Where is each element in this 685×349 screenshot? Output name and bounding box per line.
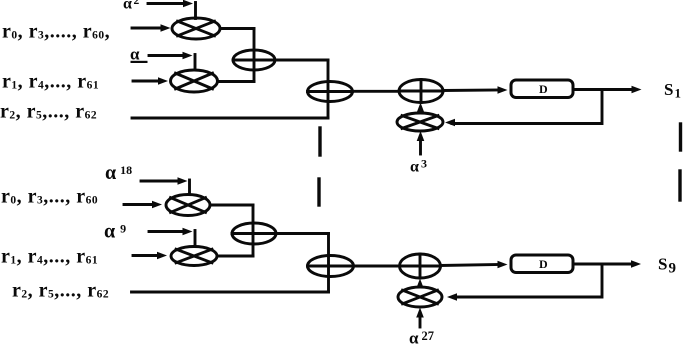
multiplier M2 (171, 70, 218, 92)
wire alpha to multiplier M2 (149, 52, 195, 70)
wire D1 output to S1 (573, 86, 642, 94)
label alpha^2 (123, 0, 139, 13)
wire r1 row into M5 (133, 252, 167, 260)
wire vertical through adder A2 (327, 60, 330, 118)
output label S9 (658, 255, 676, 277)
input r1,r4,...,r61 label (top) (2, 71, 99, 93)
multiplier M3 (feedback) (397, 113, 443, 131)
dashed separator (right) dash 1 (679, 124, 682, 150)
dashed separator (right) dash 2 (678, 171, 681, 200)
adder A3 (399, 80, 443, 103)
multiplier M4 (166, 195, 210, 216)
wire alpha^2 to multiplier M1 (148, 0, 196, 18)
wire alpha^3 input into M3 (417, 131, 425, 154)
multiplier M5 (171, 247, 217, 266)
wire M4 output to adder A4 (210, 204, 253, 207)
wire vertical through adder A5 (327, 234, 330, 293)
label alpha^18 (105, 162, 132, 184)
input r1,r4,...,r61 label (bottom) (1, 246, 98, 268)
wire D2 output to S9 (573, 260, 641, 268)
wire M3 output arrow into A3 (417, 103, 425, 114)
wire feedback from D1 output down and left into M3 (445, 90, 602, 127)
svg-text:α: α (130, 45, 140, 64)
input r0,r3,...,r60 label (top) (2, 21, 110, 43)
multiplier M1 (172, 18, 220, 39)
wire r0 row into M4 (124, 201, 162, 209)
wire vertical through adder A1 (253, 29, 256, 82)
label alpha^27 (409, 329, 434, 348)
wire M2 output to adder A1 (218, 80, 255, 83)
wire M6 output arrow into A6 (416, 279, 424, 289)
output label S1 (664, 80, 681, 101)
wire M5 output to adder A4 (217, 255, 253, 258)
svg-text:D: D (539, 257, 548, 271)
label alpha^9 (104, 221, 126, 243)
adder A1 (233, 50, 275, 70)
svg-text:α27: α27 (409, 329, 434, 345)
D register (top) (511, 80, 573, 98)
wire vertical through adder A4 (252, 205, 255, 256)
adder A5 (308, 256, 354, 277)
input r2,r5,...,r62 label (bottom) (12, 280, 109, 302)
dashed separator (middle) dash 2 (317, 179, 320, 205)
dashed separator (middle) dash 1 (318, 128, 321, 155)
wire r2 row to adder A5 (132, 291, 329, 294)
adder A2 (308, 82, 353, 102)
multiplier M6 (feedback) (398, 287, 442, 307)
wire r0 row into M1 (132, 24, 171, 32)
wire A6 output into D register arrow (441, 261, 508, 269)
input r0,r3,...,r60 label (bottom) (1, 186, 98, 208)
wire A4 output to adder A5 (276, 232, 329, 235)
wire feedback from D2 output down and left into M6 (447, 264, 602, 301)
adder A4 (232, 223, 276, 244)
label D (bottom register) (539, 257, 548, 271)
wire alpha^18 to multiplier M4 (141, 177, 190, 194)
wire A5 output to adder A6 (354, 265, 400, 268)
wire alpha^9 to multiplier M5 (149, 228, 195, 247)
input r2,r5,...,r62 label (top) (0, 101, 97, 123)
label D (top register) (539, 82, 548, 96)
wire A3 output into D register arrow (443, 86, 508, 94)
wire M1 output to adder A1 (220, 27, 254, 30)
D register (bottom) (511, 255, 573, 273)
wire A2 output to adder A3 (353, 90, 400, 93)
adder A6 (400, 254, 441, 278)
wire r2 row to adder A2 (132, 117, 328, 120)
wire A1 output to adder A2 (275, 59, 328, 62)
wire alpha^27 input into M6 (416, 308, 424, 328)
label alpha (underlined) (130, 45, 148, 64)
label alpha^3 (410, 157, 427, 176)
svg-text:D: D (539, 82, 548, 96)
wire r1 row into M2 (133, 77, 168, 85)
